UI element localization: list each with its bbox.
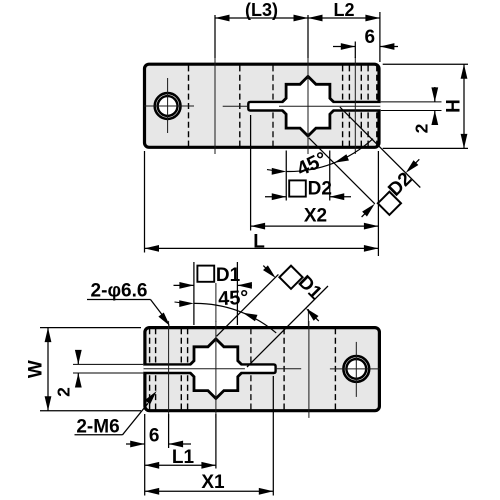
square D2 extension lines xyxy=(285,151,287,201)
top view linework xyxy=(144,57,381,154)
svg-text:6: 6 xyxy=(365,27,376,48)
slit A dim extension lines xyxy=(381,101,442,103)
hidden line: clamp hole B left edge xyxy=(188,65,190,146)
hidden line: slot B closed end xyxy=(272,65,274,146)
slit A interior through right edge xyxy=(143,365,194,372)
star A outline upper half xyxy=(282,76,333,102)
hidden line: clamp bolt A bore x=368.1 xyxy=(367,65,369,146)
slit A interior through right edge xyxy=(330,103,381,110)
square D1 extension lines xyxy=(193,262,195,325)
dimension X2 xyxy=(250,115,252,231)
dim extension: body right edge above xyxy=(379,12,381,62)
centerline star B above body xyxy=(215,283,217,322)
centerline bolt A xyxy=(168,321,170,418)
centerline through star A and slit xyxy=(144,368,245,370)
bottom view linework (180deg rotated copy) xyxy=(143,321,380,418)
hole crosshair xyxy=(144,105,194,107)
hole crosshair xyxy=(330,368,380,370)
dimension L1 xyxy=(145,464,216,466)
45deg arc (bottom view) xyxy=(194,303,276,333)
H extension lines xyxy=(383,63,468,65)
centerline star A stub above view B xyxy=(307,309,309,326)
dimension 6 (top) xyxy=(333,46,355,48)
svg-text:W: W xyxy=(26,360,47,378)
dimension square-D1 xyxy=(174,284,194,286)
slot A outline xyxy=(248,102,283,111)
centerline through star A and slit xyxy=(279,105,380,107)
dim extension: star A centerline above body xyxy=(307,15,309,58)
centerline star A xyxy=(307,57,309,154)
svg-text:2-φ6.6: 2-φ6.6 xyxy=(91,281,148,302)
hidden line: clamp bolt B bore x=181.3 xyxy=(180,329,182,410)
slot A interior xyxy=(249,103,295,110)
part body outline (top view) xyxy=(145,64,380,147)
label square D1 xyxy=(197,266,214,282)
hidden line: clamp hole B right edge xyxy=(283,329,285,410)
star A outline lower half xyxy=(190,339,241,365)
slit B dim extension lines xyxy=(73,363,143,365)
counterbore hole (2-phi6.6) xyxy=(155,93,181,119)
dimension W xyxy=(47,328,49,411)
hidden line: clamp bolt B bore x=187.6 xyxy=(187,329,189,410)
centerline hole B xyxy=(308,321,310,418)
centerline hole B xyxy=(214,57,216,154)
dimension 2 (bottom view slit) xyxy=(77,350,79,364)
clamp hole A: star-shaped cutout (square + 45deg square) xyxy=(186,339,246,399)
dimension 2 (top view slit) xyxy=(434,87,436,102)
svg-text:L1: L1 xyxy=(172,447,195,468)
slot A outline xyxy=(241,364,276,373)
rotated square-D1 dimension xyxy=(217,274,279,336)
star A outline lower half xyxy=(282,111,333,137)
dimension L xyxy=(144,151,146,253)
svg-text:2: 2 xyxy=(412,123,432,133)
svg-text:L: L xyxy=(253,231,265,252)
svg-text:X1: X1 xyxy=(201,472,225,493)
dim extension: hole B centerline above body xyxy=(214,15,216,58)
counterbore hole (2-phi6.6) xyxy=(343,356,369,382)
hidden line: slot B closed end xyxy=(250,329,252,410)
W extension lines xyxy=(40,327,141,329)
svg-text:L2: L2 xyxy=(333,0,354,20)
45deg arc (top view) xyxy=(286,139,373,172)
svg-text:(L3): (L3) xyxy=(245,0,278,20)
dim extension: star B centerline below xyxy=(215,414,217,469)
centerline star A xyxy=(215,321,217,418)
rotated square-D2 dimension xyxy=(309,138,375,204)
hidden line: clamp bolt B bore x=149.6 xyxy=(149,329,151,410)
clamp hole A: star-shaped cutout (square + 45deg square) xyxy=(278,76,338,136)
svg-text:6: 6 xyxy=(149,426,160,447)
slit A thick edges xyxy=(333,101,381,103)
hidden line: clamp bolt A bore x=342.6 xyxy=(342,65,344,146)
dim extension: slot B end below xyxy=(272,376,274,496)
dim extension: bolt A centerline above body xyxy=(354,42,356,59)
dimension (L3) xyxy=(215,17,308,19)
dimension X1 xyxy=(145,490,274,492)
dimension L2 xyxy=(308,17,380,19)
dimension 6 (bottom) xyxy=(126,443,145,445)
star A outline upper half xyxy=(190,373,241,399)
centerline bolt A xyxy=(354,57,356,154)
dim extension: body left edge (view B) below xyxy=(144,414,146,496)
dim extension: bolt B centerline below xyxy=(168,414,170,448)
hidden line: clamp hole B right edge xyxy=(239,65,241,146)
svg-text:D1: D1 xyxy=(216,265,241,286)
dimension square-D2 xyxy=(265,196,286,198)
svg-text:45°: 45° xyxy=(218,287,249,311)
svg-text:X2: X2 xyxy=(304,206,327,227)
hidden line: clamp bolt B bore x=155.6 xyxy=(155,329,157,410)
label square D2 xyxy=(289,180,306,196)
svg-text:2: 2 xyxy=(53,387,73,397)
hidden line: clamp bolt A bore x=376.8 xyxy=(376,65,378,146)
dimension H xyxy=(463,64,465,148)
hidden line: clamp hole B left edge xyxy=(334,329,336,410)
svg-text:D2: D2 xyxy=(308,179,332,200)
hidden line: clamp bolt A bore x=349.4 xyxy=(348,65,350,146)
slit A centerline stub xyxy=(276,368,302,370)
hidden line: clamp bolt A bore x=361.3 xyxy=(360,65,362,146)
slit A thick edges xyxy=(143,372,191,374)
slot A interior xyxy=(229,365,275,372)
slit A centerline stub xyxy=(223,105,249,107)
part body outline (top view) xyxy=(145,328,380,411)
svg-text:H: H xyxy=(444,99,465,113)
